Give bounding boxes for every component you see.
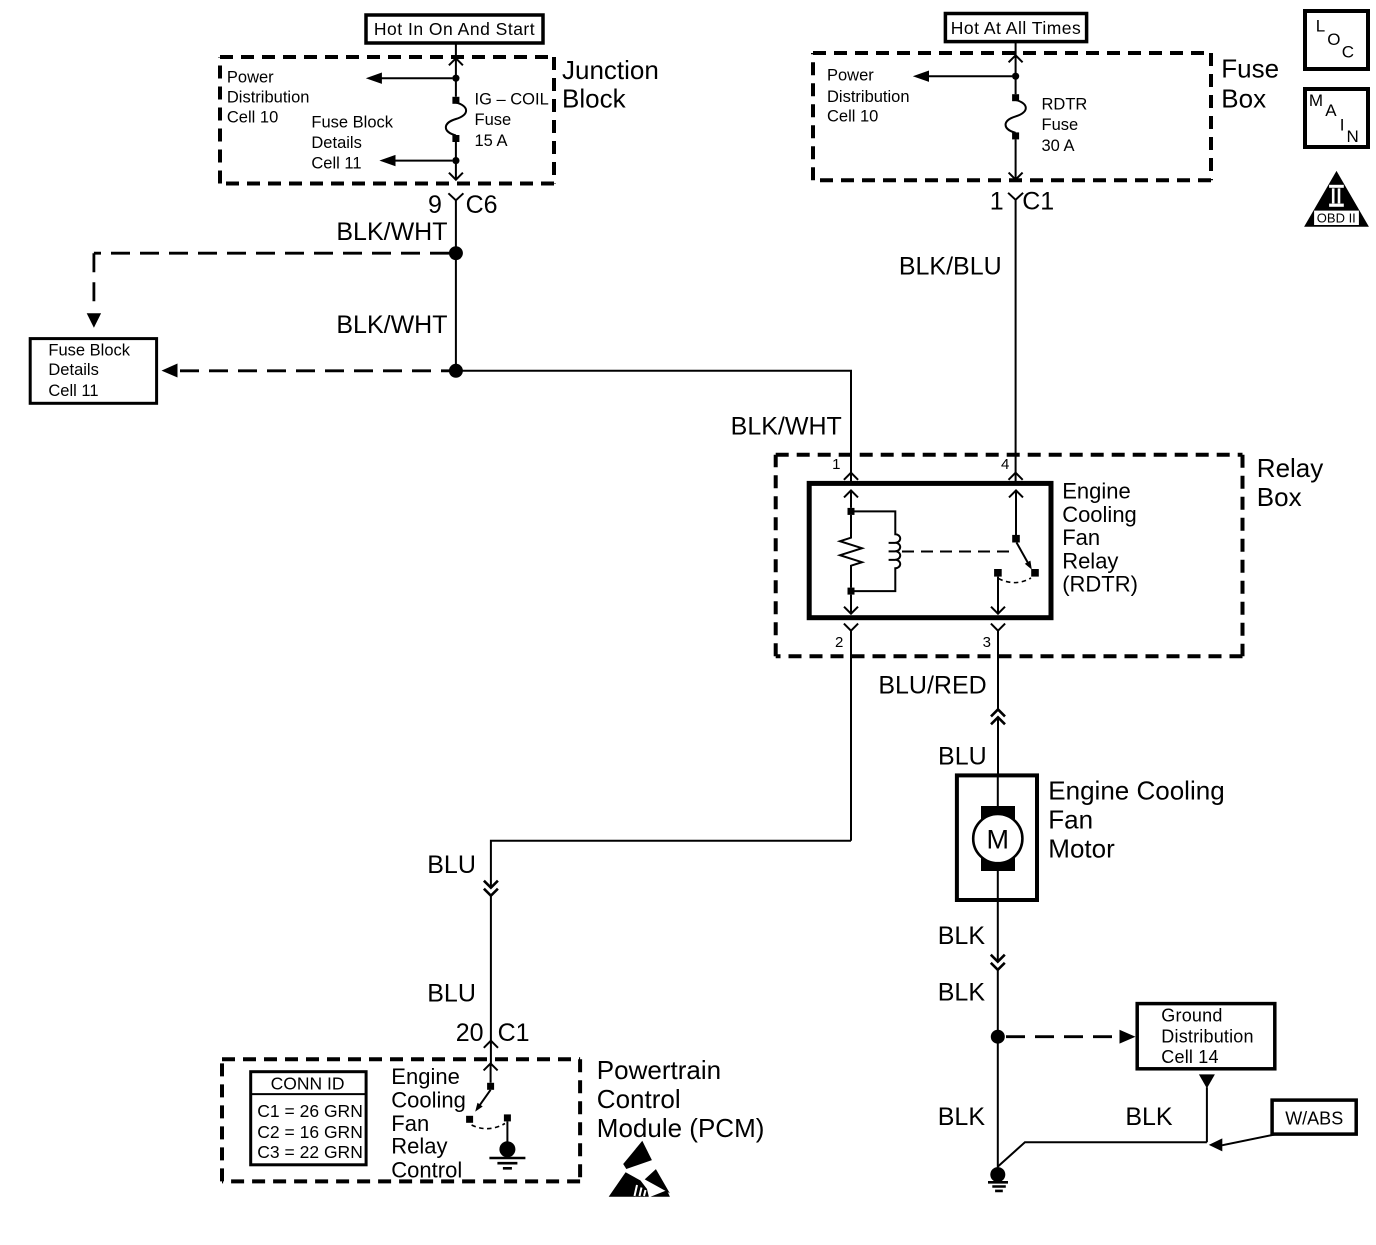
arrow up into Hot At All Times bbox=[1009, 55, 1023, 62]
svg-text:4: 4 bbox=[1001, 456, 1009, 473]
dashed contact arc (relay) bbox=[999, 578, 1032, 583]
resistor (relay) bbox=[840, 515, 862, 588]
svg-text:M: M bbox=[1309, 91, 1323, 110]
svg-text:C1 = 26 GRN: C1 = 26 GRN bbox=[257, 1101, 363, 1121]
node: junction dot (fuse box) bbox=[1012, 73, 1019, 80]
wire: junction block feed from Hot In On And Start bbox=[455, 43, 457, 180]
svg-text:BLK: BLK bbox=[938, 1103, 986, 1131]
svg-text:Cell 11: Cell 11 bbox=[311, 154, 361, 172]
connector 1 C1 bbox=[990, 188, 1054, 473]
label: Relay Box bbox=[1257, 453, 1323, 512]
wire BLU to motor bbox=[997, 717, 999, 775]
arrow down at fuse box exit bbox=[1009, 173, 1023, 180]
svg-text:C1: C1 bbox=[1022, 188, 1054, 216]
svg-text:BLU: BLU bbox=[938, 742, 987, 770]
icon: LOC box bbox=[1305, 11, 1368, 69]
svg-text:Control: Control bbox=[391, 1157, 462, 1182]
relay pin1 internal arrow down bbox=[844, 595, 858, 614]
svg-text:Powertrain: Powertrain bbox=[597, 1055, 721, 1085]
PCM fixed contact square bbox=[504, 1114, 511, 1121]
relay switch arm with arrowhead bbox=[1017, 543, 1032, 570]
svg-text:15 A: 15 A bbox=[475, 132, 508, 150]
icon: MAIN box bbox=[1305, 89, 1368, 147]
svg-text:I: I bbox=[1340, 115, 1345, 134]
node: splice dot to Fuse Block Details (lower) bbox=[449, 364, 463, 378]
inline connector chevrons (BLU pin2) bbox=[484, 881, 498, 896]
wire BLK to ground bbox=[997, 970, 999, 1168]
svg-text:CONN ID: CONN ID bbox=[271, 1074, 345, 1094]
svg-text:Engine: Engine bbox=[1062, 479, 1131, 504]
svg-text:30 A: 30 A bbox=[1042, 137, 1075, 155]
node: junction dot lower (junction block) bbox=[452, 157, 459, 164]
svg-text:Relay: Relay bbox=[1257, 453, 1323, 483]
dashed arrow to Ground Distribution box bbox=[1006, 1030, 1136, 1044]
coil (relay winding) bbox=[855, 511, 901, 591]
svg-text:Fan: Fan bbox=[1062, 525, 1100, 550]
text: Engine Cooling Fan Relay Control (PCM) bbox=[391, 1064, 466, 1182]
svg-text:3: 3 bbox=[983, 634, 991, 651]
inline connector chevrons (BLU/RED to BLU) bbox=[991, 709, 1005, 724]
svg-text:BLK/BLU: BLK/BLU bbox=[899, 253, 1002, 281]
label: Powertrain Control Module (PCM) bbox=[597, 1055, 765, 1143]
arrow up into Hot In On And Start bbox=[449, 58, 463, 65]
label box: Ground Distribution Cell 14 bbox=[1137, 1004, 1275, 1069]
relay switch closed contact square bbox=[1031, 569, 1039, 577]
dashed arrow into Fuse Block Details box bbox=[162, 364, 450, 378]
svg-text:W/ABS: W/ABS bbox=[1285, 1109, 1343, 1129]
svg-text:BLK: BLK bbox=[938, 922, 986, 950]
PCM switch arm with arrowhead bbox=[475, 1090, 490, 1112]
svg-text:Relay: Relay bbox=[391, 1134, 447, 1159]
svg-text:Distribution: Distribution bbox=[827, 88, 910, 106]
svg-text:Relay: Relay bbox=[1062, 548, 1118, 573]
wire BLU from relay pin 2 to PCM bbox=[491, 841, 851, 888]
connector pin 2 (relay box) bbox=[835, 624, 858, 841]
svg-text:Fuse: Fuse bbox=[475, 111, 512, 129]
svg-text:Box: Box bbox=[1221, 84, 1266, 114]
svg-text:Cooling: Cooling bbox=[1062, 502, 1137, 527]
svg-text:Junction: Junction bbox=[562, 55, 659, 85]
wire: fuse box feed from Hot At All Times bbox=[1015, 42, 1017, 180]
svg-text:Cooling: Cooling bbox=[391, 1087, 466, 1112]
relay box dashed box bbox=[776, 455, 1243, 656]
svg-text:Fuse: Fuse bbox=[1221, 54, 1279, 84]
svg-text:9: 9 bbox=[428, 191, 442, 219]
CONN ID table bbox=[251, 1072, 366, 1165]
svg-text:Engine Cooling: Engine Cooling bbox=[1048, 775, 1224, 805]
svg-text:BLU: BLU bbox=[427, 851, 476, 879]
svg-text:1: 1 bbox=[990, 188, 1004, 216]
text: RDTR Fuse 30 A bbox=[1042, 96, 1088, 155]
fuse RDTR 30 A bbox=[1006, 94, 1026, 139]
engine cooling fan motor M1 bbox=[957, 775, 1037, 900]
arrow to Power Distribution (junction block) bbox=[366, 73, 453, 84]
svg-text:BLK: BLK bbox=[938, 979, 986, 1007]
arrow to Fuse Block Details (junction block) bbox=[379, 155, 452, 166]
svg-text:BLU/RED: BLU/RED bbox=[878, 671, 986, 699]
arrow to Power Distribution (fuse box) bbox=[913, 71, 1012, 82]
svg-text:BLK: BLK bbox=[1125, 1103, 1173, 1131]
svg-text:Distribution: Distribution bbox=[1161, 1027, 1253, 1047]
relay coil top contact square bbox=[848, 508, 855, 515]
svg-text:Block: Block bbox=[562, 84, 627, 114]
svg-text:Cell 14: Cell 14 bbox=[1161, 1047, 1218, 1067]
label: Engine Cooling Fan Motor bbox=[1048, 775, 1224, 863]
dashed contact arc (PCM) bbox=[472, 1124, 505, 1129]
relay switch pivot contact square bbox=[1012, 535, 1020, 543]
label box: Hot In On And Start bbox=[366, 15, 543, 43]
relay switch: pin4 internal arrow up bbox=[1009, 490, 1023, 535]
svg-text:Box: Box bbox=[1257, 482, 1302, 512]
svg-text:Control: Control bbox=[597, 1084, 681, 1114]
connector pin 3 (relay box) bbox=[983, 624, 1005, 710]
svg-text:OBD II: OBD II bbox=[1317, 211, 1356, 226]
connector pin 4 (relay box) bbox=[1001, 456, 1023, 483]
label: Junction Block bbox=[562, 55, 659, 114]
connector pin 1 (relay box) bbox=[832, 456, 858, 483]
svg-text:N: N bbox=[1347, 127, 1359, 146]
svg-text:2: 2 bbox=[835, 634, 843, 651]
text: IG-COIL Fuse 15 A bbox=[475, 91, 549, 151]
svg-text:Cell 11: Cell 11 bbox=[48, 382, 98, 400]
svg-text:C: C bbox=[1342, 43, 1354, 62]
svg-text:BLK/WHT: BLK/WHT bbox=[336, 311, 447, 339]
svg-text:Details: Details bbox=[48, 361, 98, 379]
svg-text:Hot In On And Start: Hot In On And Start bbox=[374, 19, 535, 39]
PCM driver: arrow up bbox=[484, 1063, 498, 1082]
wire BLK/WHT from splice to relay pin 1 bbox=[456, 371, 851, 473]
connector 9 C6 bbox=[428, 191, 498, 371]
svg-text:C2 = 16 GRN: C2 = 16 GRN bbox=[257, 1122, 363, 1142]
svg-text:Fan: Fan bbox=[1048, 804, 1093, 834]
wire BLU to PCM pin 20 bbox=[490, 896, 492, 1041]
svg-text:Fan: Fan bbox=[391, 1111, 429, 1136]
svg-text:Motor: Motor bbox=[1048, 833, 1115, 863]
svg-text:M: M bbox=[987, 824, 1010, 854]
icon: ESD warning symbol bbox=[609, 1141, 670, 1197]
PCM internal ground bbox=[489, 1121, 525, 1168]
svg-text:Engine: Engine bbox=[391, 1064, 460, 1089]
svg-text:Hot At All Times: Hot At All Times bbox=[951, 18, 1082, 38]
svg-text:Cell 10: Cell 10 bbox=[827, 108, 878, 126]
label: Fuse Box bbox=[1221, 54, 1279, 114]
PCM switch lower contact square bbox=[466, 1116, 473, 1123]
svg-text:A: A bbox=[1325, 101, 1337, 120]
label box: Hot At All Times bbox=[945, 14, 1086, 42]
svg-text:BLK/WHT: BLK/WHT bbox=[731, 412, 842, 440]
node: junction dot upper (junction block) bbox=[452, 75, 459, 82]
dashed actuation link (relay) bbox=[902, 551, 1010, 553]
svg-text:Power: Power bbox=[827, 67, 874, 85]
fuse IG-COIL 15 A bbox=[446, 97, 466, 142]
svg-text:C6: C6 bbox=[466, 191, 498, 219]
wire from W/ABS with arrowhead bbox=[1209, 1134, 1277, 1151]
PCM switch pivot square bbox=[487, 1083, 494, 1090]
svg-text:Fuse Block: Fuse Block bbox=[48, 341, 130, 359]
arrow down at junction block exit bbox=[449, 173, 463, 180]
text: Power Distribution Cell 10 (fuse box) bbox=[827, 67, 910, 126]
junction block dashed box bbox=[220, 57, 554, 184]
fuse box dashed box bbox=[813, 53, 1211, 180]
dashed wire to Fuse Block Details box bbox=[87, 253, 449, 328]
svg-text:20: 20 bbox=[456, 1019, 484, 1047]
relay coil bottom contact square bbox=[848, 588, 855, 595]
arrow down from Ground Distribution box bbox=[1199, 1074, 1215, 1088]
svg-text:Ground: Ground bbox=[1161, 1006, 1222, 1026]
svg-text:Details: Details bbox=[311, 134, 361, 152]
text: Engine Cooling Fan Relay (RDTR) bbox=[1062, 479, 1138, 597]
svg-text:1: 1 bbox=[832, 456, 840, 473]
text: Fuse Block Details Cell 11 (junction block) bbox=[311, 114, 393, 173]
relay coil branch: pin1 internal arrow up bbox=[844, 490, 858, 508]
relay pin3 internal arrow down bbox=[991, 577, 1005, 614]
wire BLK below motor bbox=[997, 900, 999, 962]
svg-text:L: L bbox=[1316, 17, 1325, 36]
relay U1 solid box bbox=[809, 483, 1051, 617]
label box: Fuse Block Details Cell 11 bbox=[30, 339, 156, 404]
svg-text:BLK/WHT: BLK/WHT bbox=[336, 218, 447, 246]
node: splice dot to Fuse Block Details (upper) bbox=[449, 246, 463, 260]
svg-text:Distribution: Distribution bbox=[227, 89, 310, 107]
svg-text:RDTR: RDTR bbox=[1042, 96, 1088, 114]
svg-text:IG – COIL: IG – COIL bbox=[475, 91, 549, 109]
svg-text:BLU: BLU bbox=[427, 979, 476, 1007]
svg-text:Cell 10: Cell 10 bbox=[227, 109, 278, 127]
connector 20 C1 (PCM) bbox=[456, 1019, 530, 1063]
svg-text:(RDTR): (RDTR) bbox=[1062, 572, 1138, 597]
svg-text:Module (PCM): Module (PCM) bbox=[597, 1113, 765, 1143]
label box: W/ABS bbox=[1272, 1100, 1356, 1134]
relay pin3 contact square bbox=[994, 569, 1002, 577]
svg-text:Power: Power bbox=[227, 69, 274, 87]
svg-text:O: O bbox=[1327, 30, 1340, 49]
svg-text:Fuse Block: Fuse Block bbox=[311, 114, 393, 132]
ground G101 (chassis) bbox=[988, 1167, 1008, 1191]
svg-text:C1: C1 bbox=[498, 1019, 530, 1047]
text: Power Distribution Cell 10 (junction block) bbox=[227, 69, 310, 127]
inline connector chevrons (BLK) bbox=[991, 955, 1005, 970]
svg-text:C3 = 22 GRN: C3 = 22 GRN bbox=[257, 1142, 363, 1162]
wire from Ground Distribution to ground junction bbox=[998, 1087, 1207, 1166]
PCM dashed box bbox=[222, 1059, 580, 1181]
node: splice dot to Ground Distribution bbox=[991, 1030, 1005, 1044]
icon: OBD II triangle bbox=[1304, 171, 1369, 227]
svg-text:Fuse: Fuse bbox=[1042, 116, 1079, 134]
